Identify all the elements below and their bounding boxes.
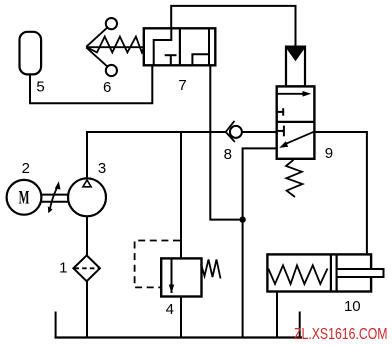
wire pump suction to filter — [86, 216, 88, 255]
shaft coupling — [41, 194, 68, 196]
valve 9 actuator neck — [286, 47, 305, 87]
valve 9 spring — [286, 160, 303, 197]
spring 6 zigzag — [87, 37, 144, 53]
pump outlet triangle — [83, 180, 91, 187]
svg-text:8: 8 — [224, 146, 232, 163]
relief valve 4 spring — [201, 260, 221, 279]
motor 2 — [7, 180, 42, 215]
roller top circle — [106, 18, 117, 29]
valve 9 upper blocked port — [277, 111, 284, 113]
svg-text:7: 7 — [178, 77, 186, 94]
wire valve7 pilot to valve9 actuator — [171, 6, 295, 47]
relief valve 4 body — [161, 258, 201, 296]
wire relief valve 4 to tank bus — [180, 297, 182, 338]
svg-text:5: 5 — [36, 79, 44, 96]
relief valve 4 internal path — [171, 258, 173, 293]
valve 7 right-position through path — [208, 28, 210, 65]
valve 7 right-position elbow path — [192, 54, 209, 65]
tank stub left — [55, 312, 57, 338]
valve 9 position divider — [277, 121, 315, 123]
lever arm to bottom roller — [86, 47, 107, 66]
valve 9 diagonal arrow — [284, 132, 314, 145]
svg-text:ZL.XS1616.COM: ZL.XS1616.COM — [294, 326, 388, 343]
valve 9 body — [277, 86, 315, 158]
wire pressure line from check valve to valve 9 — [242, 131, 277, 133]
valve 9 actuator triangle — [286, 48, 304, 61]
wire valve7 drain down to junction — [210, 65, 242, 219]
valve 9 lower blocked port — [277, 130, 284, 132]
svg-text:6: 6 — [103, 79, 111, 96]
filter 1 — [73, 255, 100, 281]
roller bottom circle — [106, 65, 117, 76]
tank stub right — [299, 312, 301, 338]
spring 6 centerline — [86, 46, 144, 48]
accumulator 5 — [20, 32, 42, 75]
wire valve 9 pilot to junction — [243, 148, 277, 219]
wire cylinder to tank bus — [276, 292, 278, 338]
svg-text:4: 4 — [166, 301, 174, 318]
tank bus line — [55, 336, 303, 338]
svg-text:10: 10 — [344, 298, 361, 315]
cylinder 10 piston — [330, 254, 332, 291]
pump 3 — [68, 178, 106, 216]
valve 9 upper arrow path — [277, 93, 304, 95]
cylinder 10 return spring — [268, 265, 327, 284]
valve 7 left-position elbow path — [154, 28, 172, 65]
roller-spring actuator 6 — [86, 18, 144, 76]
wire valve 9 outlet to cylinder — [314, 132, 367, 254]
valve 7 body — [144, 28, 216, 65]
svg-text:2: 2 — [22, 160, 30, 177]
relief valve 4 pilot dashed line — [135, 241, 180, 288]
svg-text:M: M — [19, 188, 30, 208]
wire junction to tank bus — [242, 220, 244, 338]
rotation arrow — [50, 187, 58, 212]
wire accumulator to valve7 bottom-left port — [30, 65, 152, 103]
cylinder 10 rod — [337, 269, 384, 277]
lever arm to top roller — [86, 28, 107, 47]
valve 7 left-position blocked port — [165, 54, 177, 56]
wire pump outlet riser and pressure line — [87, 132, 226, 178]
wire filter to tank bus — [86, 281, 88, 337]
check valve 8 — [230, 126, 242, 138]
wire branch to relief valve 4 — [180, 132, 182, 258]
svg-text:1: 1 — [59, 260, 67, 277]
valve 7 position divider — [179, 28, 181, 65]
svg-text:9: 9 — [325, 145, 333, 162]
junction node dot — [239, 216, 245, 222]
cylinder 10 body — [267, 254, 371, 291]
svg-text:3: 3 — [98, 160, 106, 177]
relief valve 4 arrowhead — [169, 285, 174, 294]
